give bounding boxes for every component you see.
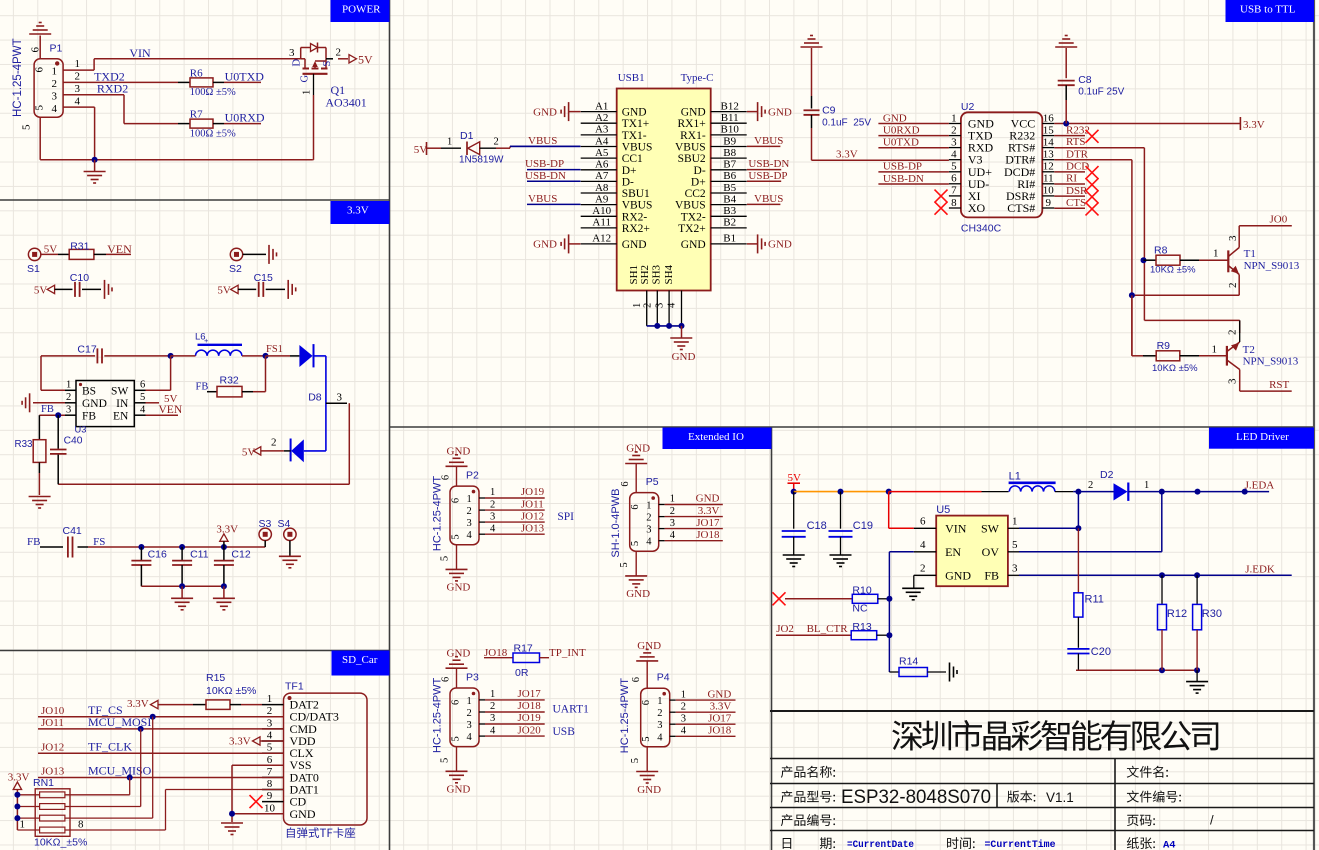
wire rail to L1 (red) [889,491,1009,493]
net label JO2 [776,623,794,635]
wire U2.CTS# [1054,197,1098,216]
net label JO13 [41,766,65,778]
svg-text:RXD2: RXD2 [97,82,128,96]
svg-text:D: D [292,59,303,67]
svg-text:6: 6 [30,47,42,53]
wire JO10/TF_CS to TF1.2 [38,716,284,718]
svg-text:1: 1 [66,380,71,391]
svg-text:D1: D1 [460,130,474,142]
wire P1.2 to R6 [63,81,178,83]
svg-text:3: 3 [490,713,495,724]
power port 3.3V (rail) [216,524,238,547]
ground (USB1 shield) [670,326,695,363]
wire B9 VBUS [747,145,781,147]
svg-text:VBUS: VBUS [754,135,783,147]
svg-text:9: 9 [1046,197,1052,209]
wire Q1 source to 5V [326,58,348,60]
wire cap bottom rail [141,585,224,587]
svg-text:RN1: RN1 [33,777,54,789]
page slash [1210,813,1214,828]
svg-text:2: 2 [467,708,472,719]
svg-text:5V: 5V [44,243,58,255]
svg-text:4: 4 [667,302,678,308]
section divider ExtendedIO/LEDDriver [771,427,773,850]
svg-text:100Ω ±5%: 100Ω ±5% [190,87,236,98]
net label USB-DP (B6) [748,170,787,182]
svg-text:TX1-: TX1- [622,130,647,142]
svg-text:S2: S2 [229,263,242,275]
capacitor C16 [131,547,167,586]
no-connect X (R10) [773,592,786,605]
svg-text:3: 3 [289,47,295,59]
wire U2.RI# [1054,173,1098,192]
svg-text:R8: R8 [1154,245,1168,257]
junction RN1 row2 [14,804,20,810]
connector TF1 body [284,681,368,826]
svg-text:GND: GND [290,807,316,821]
svg-text:5V: 5V [242,446,256,458]
svg-text:R9: R9 [1157,340,1171,352]
svg-text:UART1: UART1 [553,704,590,716]
svg-text:CTS#: CTS# [1007,201,1035,215]
comment TF1 (Chinese) [287,827,355,838]
net label TF_CS [88,703,123,717]
wire T1 collector to JO0 [1239,225,1292,227]
svg-text:C12: C12 [231,549,250,561]
connector P5 SH-1.0-4PWB [610,443,723,601]
junction RN1 row3 [14,815,20,821]
wire OV to rail [1008,492,1162,552]
svg-text:A1: A1 [595,100,608,112]
net group label USB [553,726,576,738]
svg-text:5: 5 [951,161,957,173]
svg-text:2: 2 [920,563,926,575]
svg-text:D-: D- [622,176,634,188]
resistor R7 [178,109,236,140]
capacitor C41 [40,525,88,558]
svg-text:GND: GND [533,106,557,118]
wire T2 emitter to RST [1240,390,1292,392]
svg-text:RTS: RTS [1066,136,1086,148]
power port 5V (C10) [34,285,73,297]
svg-text:6: 6 [641,700,652,705]
product model text [841,787,991,808]
svg-text:3: 3 [654,303,665,308]
capacitor C19 [829,492,873,555]
wire U2.GND [878,112,949,124]
svg-text:JO18: JO18 [696,529,720,541]
ground bar (USB1 B12) [747,102,792,121]
svg-text:VIN: VIN [129,46,151,60]
svg-text:U3: U3 [75,425,87,435]
svg-text:GND: GND [681,107,706,119]
pin numbers U3 right [140,380,146,416]
svg-text:5: 5 [21,124,33,130]
transistor Q1 labels [292,59,334,96]
svg-text:5: 5 [451,534,462,539]
svg-text:1N5819W: 1N5819W [459,155,504,166]
svg-text:GND: GND [622,107,647,119]
svg-text:10KΩ ±5%: 10KΩ ±5% [206,685,256,697]
net label JO0 [1270,213,1288,225]
svg-text:3: 3 [52,91,58,103]
capacitor C20 [1067,617,1111,670]
resistor R8 [1144,245,1200,276]
resistor R33 [15,415,46,495]
svg-text:3.3V: 3.3V [1243,119,1265,131]
svg-text:2: 2 [951,124,957,136]
wire JO12/TF_CLK to TF1.5 [38,752,284,754]
svg-text:3: 3 [337,392,343,404]
svg-text:LED Driver: LED Driver [1236,431,1289,443]
svg-text:1: 1 [1144,480,1149,491]
svg-text:JO19: JO19 [518,712,542,724]
wire 3.3V to U2.V3 [812,159,949,161]
svg-text:5: 5 [440,758,451,763]
svg-text:5V: 5V [414,144,428,156]
pin numbers U3 left [66,380,71,416]
svg-text:CC1: CC1 [622,153,643,165]
wire U2.RXD U0TXD [878,137,949,149]
svg-text:CTS: CTS [1066,197,1086,209]
svg-text:9: 9 [267,790,273,802]
svg-text:FB: FB [196,382,209,393]
svg-text:0.1uF 25V: 0.1uF 25V [1078,87,1124,98]
svg-text:CC2: CC2 [685,188,706,200]
no-connect X U2.XO [935,202,948,215]
svg-text:VEN: VEN [159,404,183,416]
svg-text:4: 4 [490,725,496,736]
svg-text:3: 3 [1227,378,1239,384]
svg-text:G: G [300,75,311,83]
svg-text:0.1uF 25V: 0.1uF 25V [822,118,871,129]
wire U2.DSR# [1054,185,1098,204]
svg-text:2: 2 [1227,283,1239,289]
resistor R32 [207,356,266,397]
diode D8 (bottom) [291,439,326,463]
wire SW up to rail [1008,492,1082,532]
svg-text:JO12: JO12 [521,510,544,522]
capacitor C18 [782,492,827,555]
wire D8 cathode loop (blue) [314,356,326,451]
svg-text:5V: 5V [34,285,48,297]
svg-text:GND: GND [447,446,471,458]
junction MCU_MOSI [138,726,144,732]
inductor L6 [171,332,266,356]
junction C12/3.3V [221,544,227,550]
svg-text:A10: A10 [592,205,611,217]
resistor R11 [1074,593,1104,617]
junction C16 top [138,544,144,550]
svg-text:USB-DN: USB-DN [883,173,924,185]
svg-text:3.3V: 3.3V [229,735,251,747]
svg-text:V1.1: V1.1 [1046,790,1074,805]
net label FS1 [266,344,283,355]
inductor L1 [1009,471,1056,492]
svg-text:HC-1.25-4PWT: HC-1.25-4PWT [12,38,24,117]
wire P1.4 down to ground rail [63,107,95,160]
resistor R31 [58,240,106,259]
ground (C19) [830,555,852,567]
wire P1.1 to VIN [63,59,301,70]
svg-text:GND: GND [696,493,720,505]
transistor Q1 pin3 number [289,47,295,59]
svg-text:2: 2 [75,71,81,83]
svg-text:R31: R31 [70,240,89,252]
capacitor C9 [804,48,872,160]
svg-text:1: 1 [267,693,273,705]
pin number D1.2 [494,137,499,148]
svg-text:C8: C8 [1078,74,1092,86]
svg-text:NC: NC [852,603,868,615]
svg-text:RX1+: RX1+ [677,118,705,130]
svg-text:DSR: DSR [1066,185,1088,197]
svg-text:5V: 5V [358,53,373,67]
pin number T1.1 [1213,248,1219,260]
svg-text:FB: FB [82,410,96,422]
svg-text:JO17: JO17 [708,712,732,724]
svg-text:R33: R33 [15,439,34,450]
svg-text:P1: P1 [50,43,63,55]
svg-text:GND: GND [681,239,706,251]
net label U0RXD [225,111,265,125]
connector P2 HC-1.25-4PWT [432,446,545,594]
svg-text:SW: SW [111,385,128,397]
resistor R15 [193,672,262,709]
svg-text:=CurrentTime: =CurrentTime [985,839,1056,850]
diode D2 [1100,469,1128,501]
wire L1 to D2 [1055,491,1079,493]
ground (C18) [783,555,805,567]
svg-text:L1: L1 [1009,471,1021,483]
resistor R6 [178,68,236,99]
svg-text:1: 1 [681,689,686,700]
section header USB to TTL [1226,0,1315,22]
wire shield bus [647,323,685,329]
field label 文件编号 [1127,790,1181,802]
svg-text:JO17: JO17 [518,688,542,700]
svg-text:USB1: USB1 [618,72,645,84]
svg-text:USB-DN: USB-DN [748,158,789,170]
svg-text:R12: R12 [1167,608,1187,620]
capacitor C10 [70,272,101,297]
svg-text:SPI: SPI [557,511,574,523]
power port 3.3V (TF1 VDD) [229,735,284,747]
svg-text:3.3V: 3.3V [127,698,149,710]
ground bar (USB1 B1) [747,234,792,253]
net label U0TXD [225,69,265,83]
svg-text:13: 13 [1043,149,1055,161]
svg-text:1: 1 [447,137,452,148]
svg-text:3: 3 [467,720,472,731]
wire U3.SW up to L6 [134,356,170,390]
svg-text:SBU2: SBU2 [678,153,706,165]
svg-text:GND: GND [622,239,647,251]
wire 5V to D1 [427,147,462,149]
svg-text:2: 2 [490,499,495,510]
wire VBUS to A4 (blue) [510,145,581,147]
svg-text:10KΩ ±5%: 10KΩ ±5% [1150,265,1196,276]
section header 3.3V [331,201,390,224]
wire corner down to return rail [58,403,349,484]
svg-text:RX1-: RX1- [680,130,706,142]
svg-text:A12: A12 [592,233,611,245]
svg-text:FS1: FS1 [266,344,283,355]
svg-text:6: 6 [630,504,641,509]
wire U2.VCC to 3.3V [1054,121,1240,127]
wire U3.IN 5V [134,393,177,405]
pin number 2 (D8 bottom) [271,437,277,449]
svg-text:MCU_MISO: MCU_MISO [88,764,152,778]
svg-text:3: 3 [951,136,957,148]
capacitor C17 [41,343,171,363]
wire RN1 row2 to MCU_MOSI [65,729,141,807]
wire USB-DP to A6 (blue) [527,169,581,171]
wire U5 GND [914,563,936,588]
wire P1.5 down [39,117,41,160]
wire U2.DCD# [1054,161,1098,180]
svg-text:JO18: JO18 [518,700,542,712]
ground (U5) [902,588,924,600]
field label 纸张 [1127,837,1155,849]
wire RN1 row1 to MCU_MISO [65,778,130,795]
svg-text:BS: BS [82,385,96,397]
svg-text:A8: A8 [595,182,609,194]
connector USB1 shield pins [628,264,681,325]
svg-text:2: 2 [267,705,273,717]
svg-text:A7: A7 [595,170,609,182]
svg-text:POWER: POWER [342,4,381,16]
svg-text:6: 6 [451,498,462,503]
net label FS (C41) [93,536,105,548]
svg-text:R30: R30 [1202,608,1222,620]
svg-text:JO0: JO0 [1270,213,1288,225]
svg-text:P2: P2 [466,470,479,482]
svg-text:U2: U2 [961,101,975,113]
svg-text:1: 1 [632,303,643,308]
svg-text:11: 11 [1043,173,1054,185]
svg-text:T2: T2 [1243,344,1255,356]
svg-text:D8: D8 [308,392,322,404]
svg-text:FS: FS [93,536,105,548]
wire U3.FB node [39,412,76,418]
field label 产品型号 [781,791,835,803]
resistor R13 [851,621,892,640]
wire to D2 anode [1078,491,1113,493]
svg-text:5: 5 [1012,539,1018,551]
svg-text:7: 7 [267,766,273,778]
wire U3.BS up to C17 [41,356,76,390]
section divider POWER/3.3V [0,199,390,201]
svg-text:4: 4 [467,732,473,743]
junction SW node top [1075,489,1081,495]
ground bar (USB1 A1) [533,102,580,121]
svg-text:RX2+: RX2+ [622,223,650,235]
junction MCU_MISO [127,775,133,781]
svg-text:8: 8 [951,197,957,209]
svg-text:8: 8 [78,819,84,831]
svg-text:4: 4 [920,539,926,551]
svg-text:2: 2 [681,701,686,712]
svg-text:C41: C41 [63,525,82,537]
net label VBUS (B9) [754,135,783,147]
svg-text:1: 1 [646,501,651,512]
wire VIN (red) [889,492,937,529]
junction TF_CS [150,714,156,720]
svg-text:TX1+: TX1+ [622,118,650,130]
svg-text:FB: FB [41,404,54,415]
net label TXD2 [94,69,125,83]
ground (S4) [279,556,301,568]
net label USB-DP (A6) [525,158,564,170]
wire B7 USB-DN [747,169,781,171]
svg-text:VBUS: VBUS [675,142,706,154]
svg-text:4: 4 [681,726,687,737]
svg-text:6: 6 [451,700,462,705]
wire 5V to D8 bottom [261,450,291,452]
svg-text:1: 1 [1212,343,1218,355]
IC U5 body [936,504,1008,586]
svg-text:USB: USB [553,726,576,738]
capacitor C12 [214,547,251,586]
svg-text:EN: EN [113,410,129,422]
wire R9 to T2 base [1199,355,1227,357]
svg-text:1: 1 [467,696,472,707]
svg-text:6: 6 [620,481,631,486]
svg-text:C10: C10 [70,272,89,284]
svg-text:10: 10 [264,802,276,814]
field label 页码 [1127,815,1155,826]
svg-text:1: 1 [20,819,26,831]
svg-text:JO17: JO17 [696,517,720,529]
wire U2.TXD U0RXD [878,124,949,136]
version text [1046,790,1074,805]
svg-text:6: 6 [140,380,145,391]
wire DTR down to R9 [1132,295,1143,356]
net label VBUS (B4) [754,193,783,205]
svg-text:6: 6 [920,516,926,528]
svg-text:SBU1: SBU1 [622,188,650,200]
svg-text:3.3V: 3.3V [698,505,720,517]
svg-text:J.EDA: J.EDA [1245,480,1275,492]
svg-text:VBUS: VBUS [622,142,653,154]
svg-text:USB-DN: USB-DN [525,170,566,182]
svg-text:C15: C15 [254,272,273,284]
power bar 3.3V (VCC) [1240,117,1264,131]
svg-text:4: 4 [267,730,273,742]
wire USB-DN to A7 (blue) [527,180,581,182]
svg-text:IN: IN [116,398,129,410]
transistor T1 NPN_S9013 [1227,226,1300,295]
no-connect X TF1.9 [250,795,263,808]
svg-text:2: 2 [271,437,277,449]
connector USB1 body [617,72,714,291]
svg-text:1: 1 [951,112,957,124]
power port 3.3V (R15) [127,698,193,710]
net label VIN [129,46,151,60]
svg-text:C40: C40 [64,436,83,447]
wire RN1 row3 to TF_CS [65,717,153,818]
svg-text:D+: D+ [691,176,706,188]
svg-text:T1: T1 [1244,248,1256,260]
svg-text:JO20: JO20 [518,724,542,736]
svg-text:GND: GND [82,398,107,410]
junction RN1 row1 [14,792,20,798]
wire B4 VBUS [747,203,781,205]
wire R7 to U0RXD [224,123,261,125]
svg-text:2: 2 [657,708,662,719]
field label 文件名 [1127,766,1168,778]
